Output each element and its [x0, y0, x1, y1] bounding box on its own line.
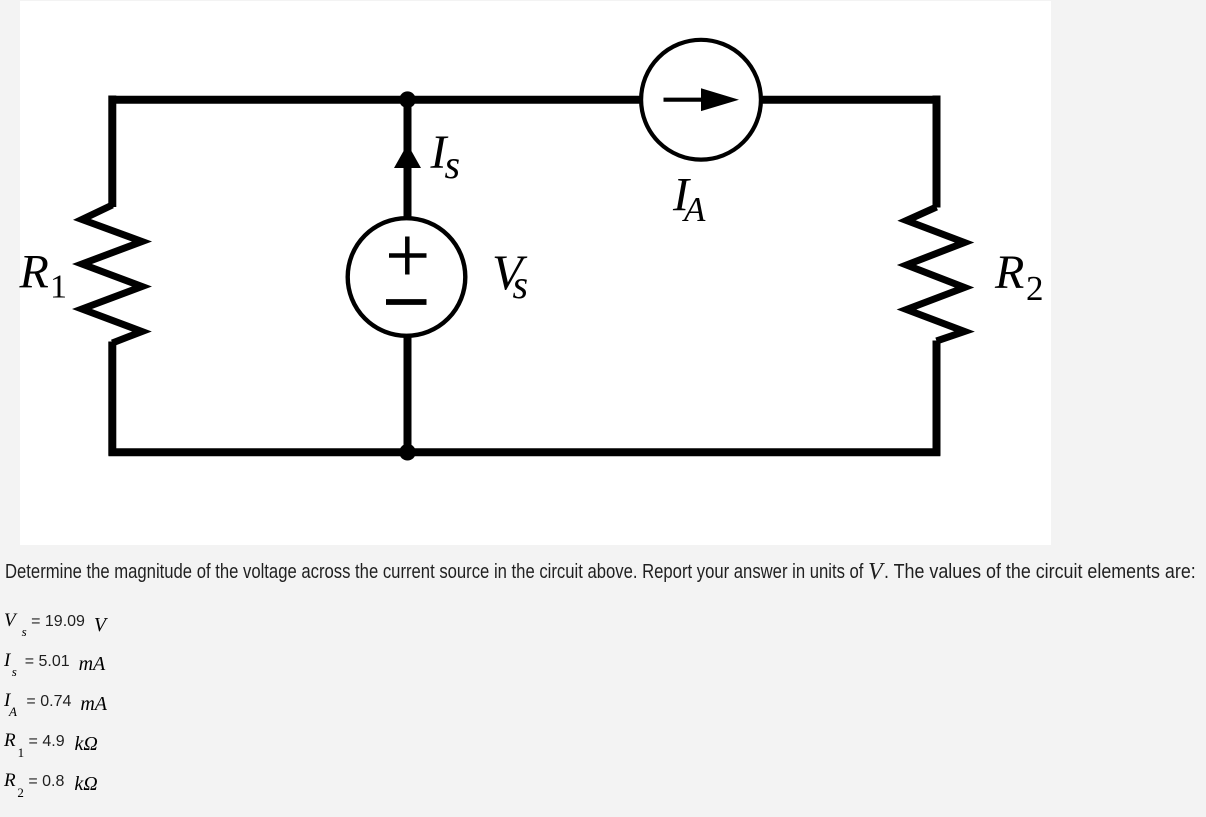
voltage source Vs	[348, 218, 466, 336]
node junction top	[399, 91, 416, 108]
question paragraph unit V	[868, 560, 883, 584]
wire top	[109, 96, 941, 104]
current source IA	[641, 40, 761, 160]
wire left lower	[108, 342, 116, 456]
value line Is	[4, 649, 105, 684]
svg-text:R: R	[19, 246, 49, 299]
wire middle branch lower	[404, 320, 412, 456]
svg-text:R: R	[994, 246, 1024, 299]
label R2	[994, 246, 1044, 308]
resistor R1	[82, 205, 142, 343]
svg-text:A: A	[682, 190, 706, 229]
arrow Is	[394, 144, 421, 168]
wire bottom	[109, 448, 941, 456]
wire middle branch upper	[404, 96, 412, 241]
label R1	[19, 246, 68, 306]
svg-text:s: s	[513, 262, 529, 307]
wire right upper	[933, 96, 941, 208]
figure white canvas	[20, 1, 1051, 545]
wire right lower	[933, 341, 941, 456]
question paragraph part 1	[5, 562, 863, 582]
svg-text:2: 2	[1026, 269, 1044, 308]
label IA	[672, 168, 706, 229]
svg-text:1: 1	[50, 269, 67, 306]
node junction bottom	[399, 444, 416, 461]
resistor R2	[907, 207, 965, 341]
label Is	[430, 126, 461, 187]
svg-text:s: s	[445, 142, 461, 187]
question paragraph part 2	[884, 562, 1196, 582]
value line R1	[4, 729, 98, 765]
value line R2	[4, 769, 98, 805]
label Vs	[492, 244, 528, 307]
wire left upper	[108, 96, 116, 208]
value line IA	[4, 689, 107, 724]
value line Vs	[4, 609, 106, 644]
